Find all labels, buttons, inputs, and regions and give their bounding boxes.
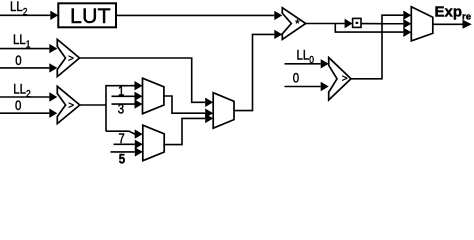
node 7 (mux M2 input label) <box>118 131 124 146</box>
mux M3 <box>213 93 234 129</box>
wire 7 to mux M2 <box>114 143 135 145</box>
svg-text:Exp: Exp <box>435 3 463 20</box>
wire mux M3 out to multiplier <box>234 34 274 110</box>
comparator U6 (LL0 > 0) <box>329 58 351 101</box>
wire comparator B out to mux M4 input 1 <box>351 15 403 79</box>
node 0 (comparator A constant) <box>15 53 21 68</box>
node 0 (comparator B constant) <box>293 71 299 86</box>
wire mux M2 out to mux M3 <box>164 118 205 144</box>
wire LL0 to comparator B <box>285 63 321 65</box>
mux M2 <box>143 125 164 161</box>
svg-text:LL0: LL0 <box>297 47 314 65</box>
svg-text:>: > <box>68 54 74 65</box>
wire LL2 to comparator C <box>0 96 49 98</box>
node Exp_re (output label) <box>435 3 471 22</box>
node LL2 (second label) <box>13 82 30 100</box>
LUT U1 <box>58 3 116 28</box>
svg-text:0: 0 <box>15 98 21 113</box>
wire 3 to mux M1 <box>112 103 135 105</box>
wire 0 to comparator B <box>285 86 321 88</box>
multiplier U4 <box>282 8 305 40</box>
node LL1 (label) <box>13 32 30 50</box>
svg-text:0: 0 <box>15 53 21 68</box>
wire 0 to comparator A <box>0 67 49 69</box>
wire comparator A out to mux M3 select <box>80 58 206 102</box>
mux M4 <box>411 7 433 41</box>
svg-text:>: > <box>68 101 74 112</box>
wire rounding block to mux M4 input 2 <box>361 23 403 25</box>
wire multiplier out to rounding block <box>306 23 345 25</box>
rounding block U5 <box>353 18 361 27</box>
svg-text:5: 5 <box>119 152 125 165</box>
wire LL1 to comparator A <box>0 48 49 50</box>
node 3 (mux M1 input label) <box>118 102 124 117</box>
wire LUT to multiplier <box>116 14 274 16</box>
wire 1 to mux M1 <box>112 95 135 97</box>
comparator U2 (LL1 > 0) <box>57 39 79 76</box>
node 0 (comparator C constant) <box>15 98 21 113</box>
wire LL2 to LUT <box>0 14 50 16</box>
svg-text:*: * <box>295 18 300 30</box>
wire 0 to comparator C <box>0 112 49 114</box>
svg-text:LL2: LL2 <box>10 0 27 17</box>
node LL0 (label) <box>297 47 314 65</box>
node 1 (mux M1 input label) <box>118 84 124 99</box>
svg-text:LL1: LL1 <box>13 32 30 50</box>
node 5 (mux M2 input label, bold) <box>119 152 125 167</box>
wire comparator C out split to mux M1 and M2 selects <box>80 104 106 106</box>
svg-text:0: 0 <box>293 71 299 86</box>
wire 5 to mux M2 <box>111 151 135 153</box>
wire mux M4 out (Exp_re arrow) <box>433 23 463 25</box>
svg-text:LUT: LUT <box>70 4 111 28</box>
node LL2 (top label) <box>10 0 27 17</box>
comparator U3 (LL2 > 0) <box>57 86 80 123</box>
wire branch junction to mux M4 input 3 <box>335 24 403 33</box>
mux M1 <box>143 78 164 114</box>
wire mux M1 out to mux M3 <box>164 96 205 113</box>
svg-text:>: > <box>342 73 348 84</box>
